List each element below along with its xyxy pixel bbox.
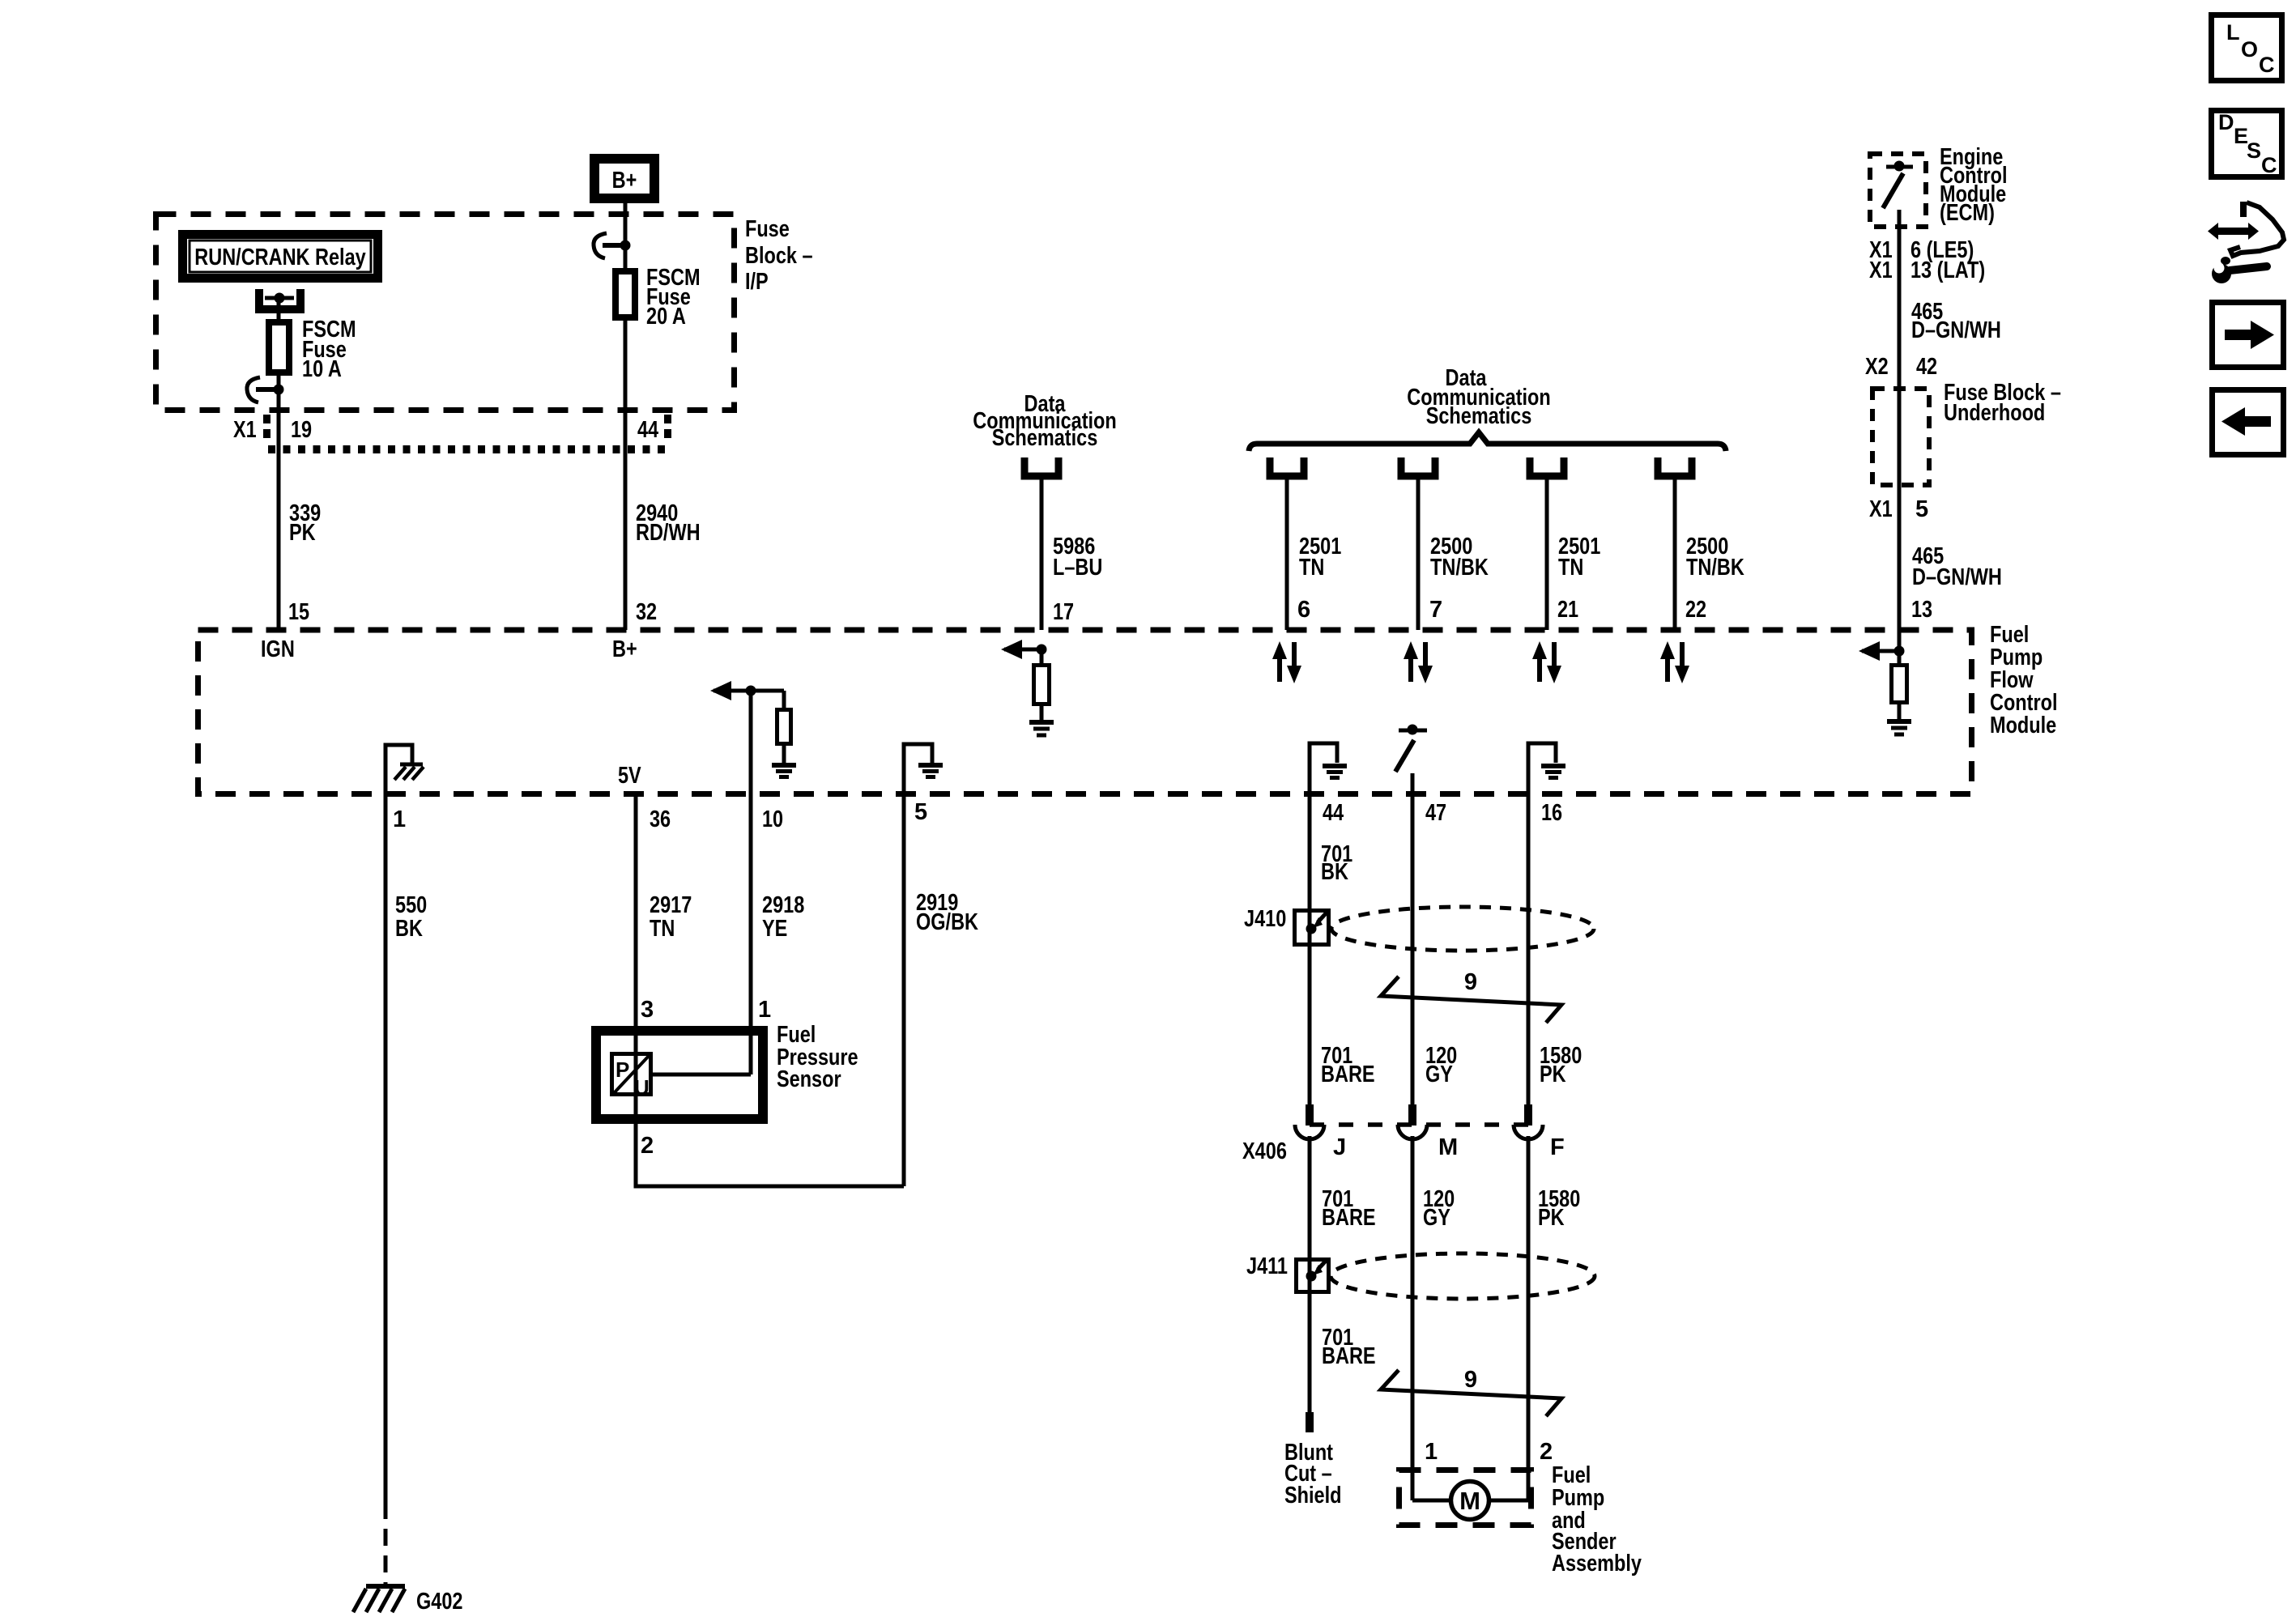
svg-text:9: 9 (1464, 1367, 1477, 1393)
svg-text:7: 7 (1429, 597, 1442, 623)
svg-text:X1: X1 (233, 417, 257, 443)
svg-text:D–GN/WH: D–GN/WH (1911, 317, 2001, 343)
svg-text:1: 1 (1425, 1439, 1438, 1465)
svg-text:J410: J410 (1244, 906, 1286, 932)
svg-text:Fuse: Fuse (745, 216, 790, 242)
svg-text:2917: 2917 (650, 892, 692, 918)
svg-text:(ECM): (ECM) (1940, 200, 1995, 226)
svg-text:D: D (2218, 110, 2234, 134)
svg-text:16: 16 (1541, 800, 1562, 826)
svg-text:TN: TN (650, 916, 675, 942)
svg-text:OG/BK: OG/BK (916, 909, 978, 935)
svg-text:TN: TN (1299, 555, 1324, 581)
svg-text:2918: 2918 (762, 892, 804, 918)
svg-text:J: J (1333, 1134, 1346, 1160)
svg-text:IGN: IGN (261, 636, 295, 662)
svg-text:13: 13 (1911, 597, 1932, 623)
svg-text:GY: GY (1425, 1062, 1453, 1087)
svg-text:BK: BK (395, 916, 423, 942)
svg-text:GY: GY (1423, 1205, 1450, 1231)
svg-text:47: 47 (1425, 800, 1446, 826)
svg-text:X406: X406 (1242, 1138, 1287, 1164)
svg-text:X1: X1 (1869, 257, 1893, 283)
svg-text:5: 5 (1915, 496, 1928, 522)
svg-text:17: 17 (1053, 599, 1074, 625)
svg-text:36: 36 (650, 806, 671, 832)
svg-text:Shield: Shield (1284, 1483, 1342, 1508)
svg-text:1: 1 (393, 806, 406, 832)
svg-text:G402: G402 (416, 1589, 463, 1615)
svg-text:D–GN/WH: D–GN/WH (1912, 564, 2002, 590)
svg-text:TN: TN (1558, 555, 1583, 581)
svg-text:S: S (2247, 138, 2261, 163)
svg-text:Module: Module (1990, 713, 2056, 738)
svg-text:Schematics: Schematics (1426, 403, 1532, 429)
svg-text:BARE: BARE (1321, 1062, 1375, 1087)
svg-text:20 A: 20 A (646, 304, 686, 330)
svg-text:RUN/CRANK Relay: RUN/CRANK Relay (194, 245, 365, 270)
svg-text:19: 19 (291, 417, 312, 443)
svg-text:X1: X1 (1869, 496, 1893, 522)
svg-text:F: F (1550, 1134, 1565, 1160)
svg-text:YE: YE (762, 916, 787, 942)
svg-text:TN/BK: TN/BK (1686, 555, 1744, 581)
svg-text:B+: B+ (612, 168, 637, 194)
svg-text:10: 10 (762, 806, 783, 832)
svg-text:X2: X2 (1865, 354, 1889, 380)
svg-text:BARE: BARE (1322, 1205, 1376, 1231)
svg-text:3: 3 (641, 997, 654, 1023)
svg-text:Sensor: Sensor (777, 1066, 841, 1092)
svg-text:Schematics: Schematics (992, 425, 1098, 451)
svg-text:Underhood: Underhood (1944, 400, 2045, 426)
svg-text:5V: 5V (618, 763, 641, 789)
svg-text:1: 1 (758, 997, 771, 1023)
svg-text:44: 44 (1323, 800, 1344, 826)
svg-text:32: 32 (636, 599, 657, 625)
svg-text:21: 21 (1557, 597, 1578, 623)
svg-text:C: C (2261, 153, 2277, 177)
svg-text:M: M (1459, 1487, 1480, 1515)
svg-text:22: 22 (1685, 597, 1706, 623)
svg-text:2: 2 (641, 1133, 654, 1159)
svg-text:44: 44 (637, 417, 658, 443)
svg-text:6: 6 (1297, 597, 1310, 623)
svg-text:U: U (634, 1075, 650, 1100)
svg-text:J411: J411 (1246, 1253, 1288, 1279)
svg-text:TN/BK: TN/BK (1430, 555, 1489, 581)
svg-text:B+: B+ (612, 636, 637, 662)
svg-text:C: C (2259, 53, 2275, 77)
svg-text:9: 9 (1464, 969, 1477, 995)
svg-text:RD/WH: RD/WH (636, 520, 701, 546)
svg-text:PK: PK (1540, 1062, 1566, 1087)
svg-text:15: 15 (288, 599, 309, 625)
svg-text:L–BU: L–BU (1053, 555, 1102, 581)
svg-text:I/P: I/P (745, 269, 769, 295)
svg-text:550: 550 (395, 892, 427, 918)
svg-text:Block –: Block – (745, 243, 813, 269)
svg-text:Assembly: Assembly (1552, 1551, 1642, 1577)
svg-text:L: L (2226, 20, 2240, 45)
svg-text:2: 2 (1540, 1439, 1553, 1465)
svg-text:13 (LAT): 13 (LAT) (1910, 257, 1985, 283)
svg-text:P: P (616, 1057, 629, 1082)
svg-text:O: O (2241, 37, 2258, 62)
svg-text:10 A: 10 A (302, 356, 342, 382)
svg-text:42: 42 (1916, 354, 1937, 380)
svg-text:5: 5 (914, 799, 927, 825)
svg-text:BK: BK (1321, 859, 1348, 885)
svg-text:BARE: BARE (1322, 1343, 1376, 1369)
svg-text:PK: PK (289, 520, 316, 546)
svg-text:M: M (1438, 1134, 1458, 1160)
svg-text:PK: PK (1538, 1205, 1565, 1231)
